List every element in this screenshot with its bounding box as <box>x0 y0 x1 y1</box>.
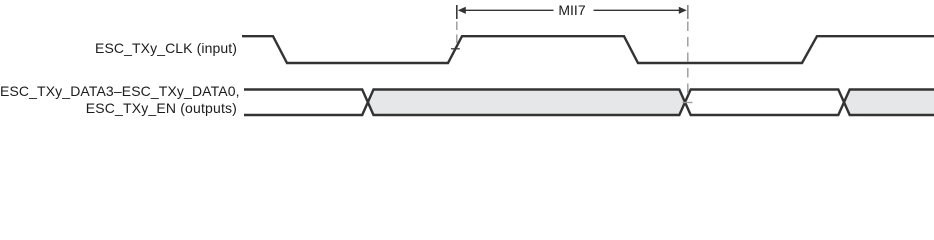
measurement tick on clock rising edge <box>451 48 460 50</box>
extension bar left <box>456 5 458 19</box>
svg-text:ESC_TXy_DATA3–ESC_TXy_DATA0,: ESC_TXy_DATA3–ESC_TXy_DATA0, <box>0 83 240 99</box>
arrowhead right <box>679 7 687 14</box>
extension bar right <box>687 5 689 19</box>
svg-text:ESC_TXy_CLK (input): ESC_TXy_CLK (input) <box>95 40 237 56</box>
extension dashed line right <box>687 22 689 100</box>
arrowhead left <box>458 7 466 14</box>
dimension line MII7 left part <box>463 9 554 11</box>
svg-text:MII7: MII7 <box>558 2 585 18</box>
bus gray fill segment MII7 window <box>368 90 685 116</box>
bus waveform top line <box>244 90 934 116</box>
measurement tick on bus crossing <box>683 102 693 104</box>
clock waveform ESC_TXy_CLK <box>242 36 934 63</box>
bus waveform bottom line <box>244 90 934 116</box>
svg-text:ESC_TXy_EN (outputs): ESC_TXy_EN (outputs) <box>86 100 237 116</box>
dimension line MII7 right part <box>594 9 683 11</box>
extension dashed line left <box>456 22 458 46</box>
bus gray fill segment right <box>844 90 934 116</box>
